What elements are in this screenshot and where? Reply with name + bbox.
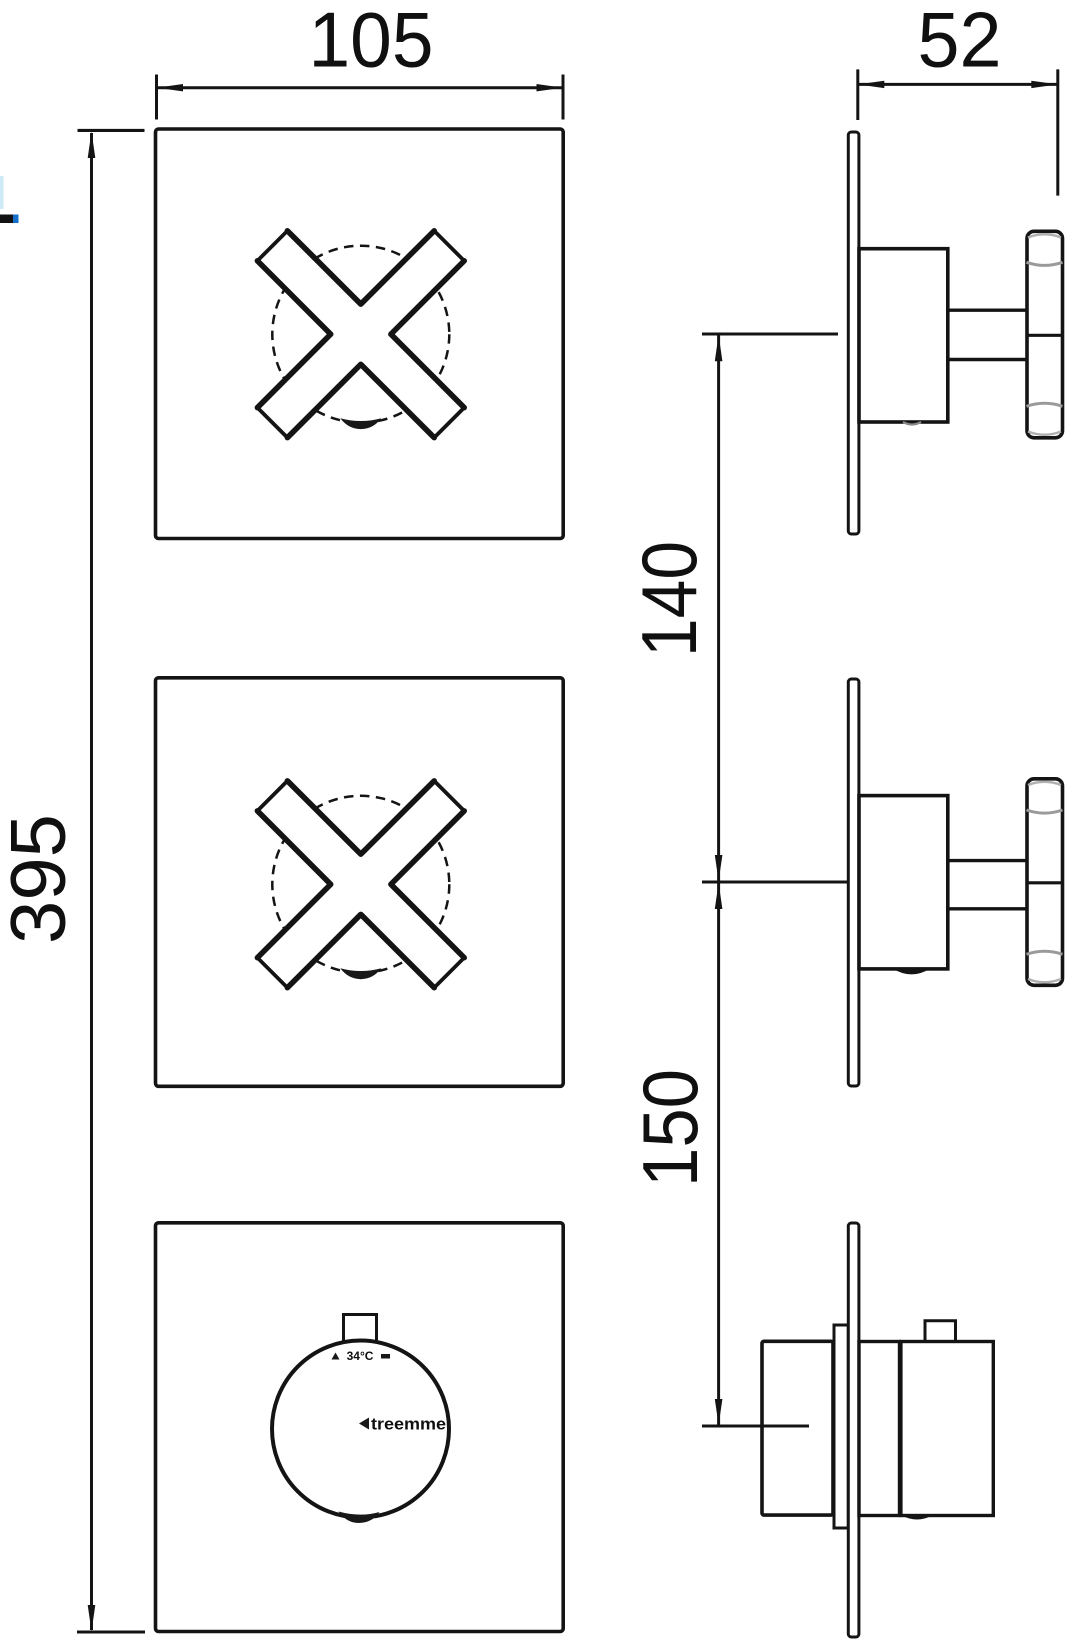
- dashed circle 1: [272, 246, 449, 423]
- side view 3 : flange strip: [834, 1325, 848, 1528]
- front plate 1: [156, 129, 564, 539]
- dimension 140-150 chain line: [702, 334, 847, 1426]
- side view 2 : handle side: [1027, 779, 1063, 986]
- side view 3 : body part A: [859, 1342, 900, 1516]
- svg-text:395: 395: [0, 814, 82, 944]
- svg-text:105: 105: [309, 0, 434, 84]
- svg-text:34°C: 34°C: [347, 1349, 374, 1363]
- svg-text:52: 52: [918, 0, 1002, 84]
- dimension 52 line: [858, 69, 1058, 195]
- side view 2 : stem: [948, 859, 1026, 862]
- front plate 2: [156, 678, 564, 1087]
- svg-text:140: 140: [625, 541, 713, 657]
- side view 2 : valve body: [859, 796, 948, 969]
- side view 2 : wall plate: [848, 679, 859, 1086]
- side view 1 : body notch: [903, 422, 921, 425]
- side view 1 : valve body: [859, 249, 948, 422]
- svg-text:150: 150: [626, 1069, 714, 1187]
- cropped logo fragment at left edge: [0, 176, 19, 223]
- side view 1 : handle side: [1027, 231, 1063, 437]
- side view 3 : body part B: [901, 1342, 993, 1516]
- dimension 395 line: [77, 130, 145, 1632]
- dimension 105 line: [157, 75, 564, 120]
- side view 1 : stem: [948, 309, 1026, 312]
- cross handle 2: [257, 781, 464, 988]
- side view 1 : wall plate: [848, 132, 859, 534]
- cross handle 1: [257, 231, 464, 438]
- indicator crescent 1: [340, 418, 381, 429]
- indicator crescent 3: [339, 1512, 380, 1524]
- side view 3 : wall plate: [848, 1223, 859, 1637]
- side view 3 : body mark: [902, 1516, 932, 1520]
- 34C scale text: [332, 1353, 391, 1360]
- dashed circle 2: [272, 796, 449, 973]
- treemme logo: [359, 1418, 369, 1430]
- side view 3 : tab: [925, 1321, 956, 1342]
- side view 2 : body bump: [893, 969, 930, 975]
- thermostat knob circle: [272, 1341, 449, 1518]
- thermostat knob tab: [344, 1315, 377, 1343]
- front plate 3: [156, 1223, 564, 1632]
- indicator crescent 2: [340, 968, 381, 979]
- svg-text:treemme: treemme: [371, 1416, 446, 1434]
- side view 3 : knob: [762, 1341, 833, 1515]
